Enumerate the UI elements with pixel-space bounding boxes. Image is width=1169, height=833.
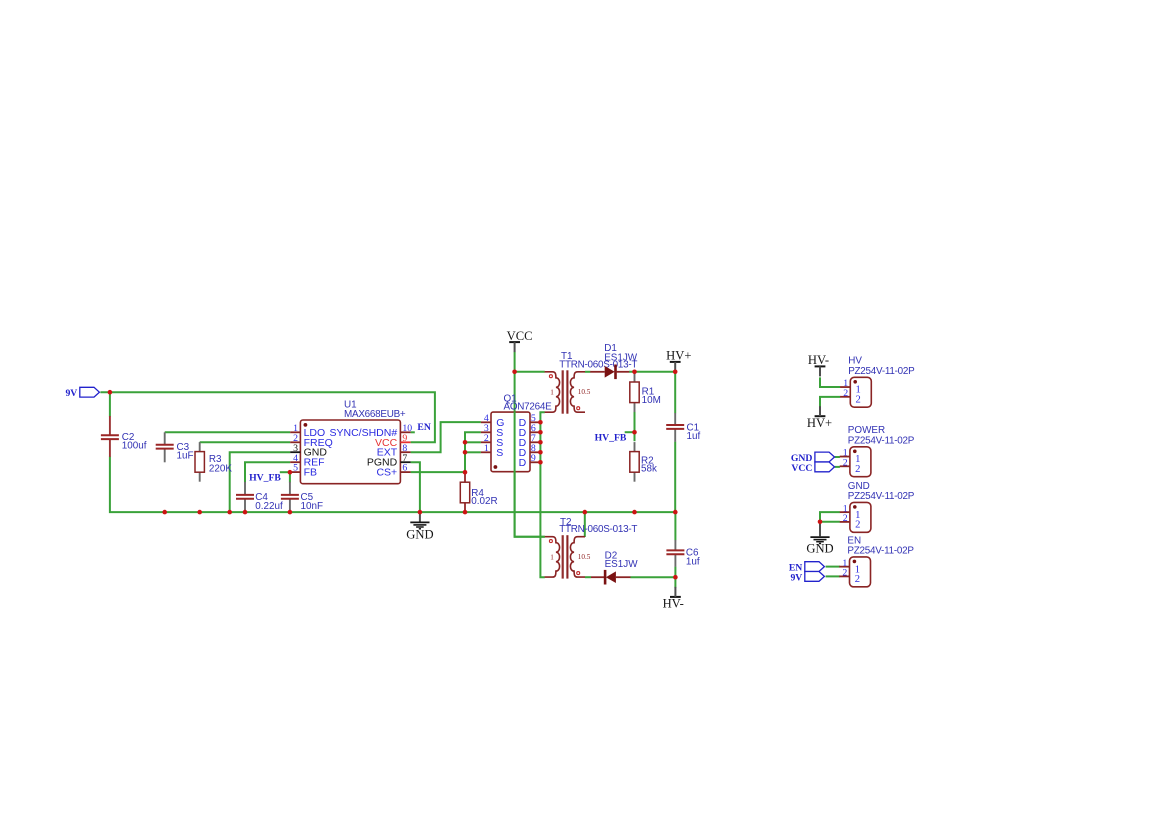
- U1 pin 3 GND: [290, 443, 327, 459]
- junction: [227, 510, 232, 515]
- wire HV_FB stub at FB: [280, 471, 290, 473]
- resistor R1 10M: [630, 373, 661, 413]
- svg-text:AON7264E: AON7264E: [504, 402, 553, 413]
- wire HV+ node to C1: [674, 372, 676, 413]
- svg-text:HV_FB: HV_FB: [595, 432, 627, 443]
- svg-text:S: S: [496, 447, 503, 459]
- junction: [538, 460, 543, 465]
- svg-text:VCC: VCC: [791, 463, 812, 474]
- svg-text:HV-: HV-: [808, 353, 829, 367]
- connector EN PZ254V-11-02P: [839, 535, 914, 587]
- junction: [463, 450, 468, 455]
- junction: [632, 370, 637, 375]
- wire U1 GND to rail: [230, 452, 291, 512]
- wire VCC down to T2 primary top: [515, 352, 545, 537]
- svg-text:TTRN-060S-013-T: TTRN-060S-013-T: [559, 524, 637, 535]
- Q1 pin 5 D: [519, 413, 541, 429]
- wire source bus to Q1 pin1: [465, 451, 481, 453]
- svg-text:1: 1: [550, 388, 554, 396]
- Q1 pin 4 G: [481, 413, 505, 429]
- capacitor C5 10nF: [281, 482, 323, 512]
- net flag 9V: [790, 572, 824, 584]
- junction: [673, 510, 678, 515]
- power flag HV- at HV connector: [808, 353, 829, 376]
- U1 pin 10 SYNC/SHDN#: [330, 423, 413, 439]
- capacitor C4 0.22uf: [236, 482, 283, 512]
- wire FB to C5: [289, 472, 291, 482]
- svg-text:ES1JW: ES1JW: [605, 559, 639, 570]
- svg-text:10M: 10M: [642, 395, 661, 406]
- svg-text:1uf: 1uf: [687, 431, 701, 442]
- svg-text:D: D: [519, 457, 527, 469]
- junction: [538, 430, 543, 435]
- svg-text:1uf: 1uf: [686, 556, 700, 567]
- wire U1 EXT to Q1 gate: [411, 422, 481, 452]
- svg-text:2: 2: [842, 568, 847, 579]
- wire GND conn pin1: [820, 512, 840, 522]
- svg-text:1: 1: [550, 553, 554, 561]
- svg-text:1: 1: [484, 443, 489, 454]
- wire GND flag to POWER pin1: [835, 456, 840, 458]
- junction: [632, 510, 637, 515]
- connector POWER PZ254V-11-02P: [840, 425, 915, 476]
- svg-text:EN: EN: [417, 422, 430, 433]
- svg-text:2: 2: [855, 574, 860, 585]
- net flag VCC: [791, 462, 834, 474]
- Q1 pin 8 D: [519, 443, 541, 459]
- wire T2 secondary to D2: [585, 576, 591, 578]
- U1 pin 2 FREQ: [290, 433, 333, 449]
- wire R1 to R2 divider: [634, 412, 636, 442]
- power flag HV-: [663, 587, 684, 611]
- resistor R3 220K: [195, 442, 232, 482]
- wire D2 to HV- node: [630, 576, 675, 578]
- U1 pin 9 VCC: [375, 433, 411, 449]
- junction: [463, 440, 468, 445]
- junction: [818, 520, 823, 525]
- junction: [512, 370, 517, 375]
- svg-text:HV: HV: [848, 356, 862, 367]
- wire VCC through Q1 to T2 primary top (overlay): [515, 412, 545, 537]
- junction: [538, 440, 543, 445]
- U1 pin 4 REF: [290, 453, 324, 469]
- power flag VCC: [507, 329, 533, 352]
- svg-text:9V: 9V: [790, 572, 802, 583]
- svg-text:220K: 220K: [209, 463, 232, 474]
- svg-text:HV+: HV+: [666, 349, 691, 363]
- wire HV conn pin2 to HV+: [820, 397, 840, 407]
- junction: [673, 370, 678, 375]
- wire 9V flag to EN conn pin2: [826, 575, 840, 577]
- junction: [463, 470, 468, 475]
- svg-text:10.5: 10.5: [578, 388, 591, 396]
- svg-text:2: 2: [856, 395, 861, 406]
- svg-text:58k: 58k: [641, 464, 657, 475]
- svg-text:GND: GND: [848, 481, 870, 492]
- net flag EN: [789, 562, 825, 574]
- svg-text:GND: GND: [406, 527, 433, 541]
- svg-text:FB: FB: [304, 467, 317, 479]
- svg-text:2: 2: [855, 464, 860, 475]
- junction: [418, 510, 423, 515]
- net flag 9V: [65, 387, 99, 399]
- resistor R4 0.02R: [460, 473, 497, 513]
- svg-text:2: 2: [843, 457, 848, 468]
- wire HV conn pin1 to HV-: [820, 377, 840, 387]
- U1 pin 1 LDO: [290, 423, 325, 439]
- wire 9V to C2: [109, 392, 111, 416]
- svg-text:2: 2: [843, 388, 848, 399]
- svg-text:HV_FB: HV_FB: [249, 473, 281, 484]
- svg-text:MAX668EUB+: MAX668EUB+: [344, 409, 406, 420]
- junction: [288, 470, 293, 475]
- capacitor C2 100uf: [101, 416, 147, 457]
- Q1 pin 3 S: [481, 423, 503, 439]
- svg-text:0.02R: 0.02R: [471, 496, 497, 507]
- svg-text:9V: 9V: [65, 388, 77, 399]
- wire C6 to HV-: [674, 567, 676, 588]
- junction: [162, 510, 167, 515]
- wire source bus to Q1 pin3: [465, 432, 481, 472]
- net flag GND: [791, 452, 835, 464]
- svg-text:ES1JW: ES1JW: [604, 353, 638, 364]
- svg-text:HV-: HV-: [663, 597, 684, 611]
- wire U1 CS+ to R4 node: [411, 471, 465, 473]
- svg-text:2: 2: [843, 513, 848, 524]
- svg-text:10nF: 10nF: [301, 501, 324, 512]
- svg-text:PZ254V-11-02P: PZ254V-11-02P: [848, 366, 915, 377]
- svg-text:9: 9: [531, 453, 536, 464]
- wire VCC to T1 primary top: [515, 371, 545, 373]
- svg-text:PZ254V-11-02P: PZ254V-11-02P: [848, 491, 915, 502]
- svg-text:VCC: VCC: [507, 329, 533, 343]
- svg-text:5: 5: [293, 463, 298, 474]
- svg-text:POWER: POWER: [848, 425, 885, 436]
- wire VCC flag to POWER pin2: [835, 466, 840, 468]
- Q1 pin 7 D: [519, 433, 541, 449]
- wire GND conn pin2: [820, 521, 840, 523]
- op-amp U1 MAX668EUB+ (boost controller IC): [300, 400, 406, 484]
- wire D1 to HV+ node: [629, 371, 675, 373]
- wire EN flag to EN conn pin1: [826, 566, 840, 568]
- transistor Q1 AON7264E (MOSFET): [491, 393, 552, 471]
- wire U1 PGND to rail: [411, 462, 420, 512]
- wire HV_FB stub at divider: [625, 431, 635, 433]
- Q1 pin 6 D: [519, 423, 541, 439]
- Q1 pin 1 S: [481, 443, 503, 459]
- wire GND rail: [110, 457, 675, 513]
- junction: [197, 510, 202, 515]
- svg-text:6: 6: [402, 463, 407, 474]
- wire U1 REF to C4: [245, 462, 290, 482]
- svg-text:EN: EN: [847, 535, 861, 546]
- svg-text:1uF: 1uF: [177, 451, 194, 462]
- junction: [538, 420, 543, 425]
- svg-text:2: 2: [855, 520, 860, 531]
- junction: [108, 390, 113, 395]
- junction: [632, 430, 637, 435]
- connector GND PZ254V-11-02P: [840, 481, 915, 533]
- wire rail to C6: [674, 512, 676, 540]
- diode D2 ES1JW: [591, 551, 638, 585]
- capacitor C1 1uf: [666, 413, 700, 442]
- svg-text:100uf: 100uf: [122, 441, 147, 452]
- svg-text:HV+: HV+: [807, 416, 832, 430]
- junction: [463, 510, 468, 515]
- wire rail to T2 secondary top: [584, 512, 586, 537]
- Q1 pin 9 D: [519, 453, 541, 469]
- wire C1 to rail: [674, 442, 676, 512]
- svg-text:PZ254V-11-02P: PZ254V-11-02P: [847, 546, 914, 557]
- wire 9V to U1 VCC pin9: [100, 392, 435, 442]
- junction: [673, 575, 678, 580]
- U1 pin 5 FB: [290, 463, 317, 479]
- capacitor C6 1uf: [666, 540, 699, 567]
- power flag HV+: [666, 349, 691, 372]
- wire source bus to Q1 pin2: [465, 441, 481, 443]
- wire U1 LDO to C3: [165, 431, 291, 433]
- capacitor C3 1uF: [156, 432, 194, 462]
- svg-text:PZ254V-11-02P: PZ254V-11-02P: [848, 436, 915, 447]
- U1 pin 7 PGND: [367, 453, 411, 469]
- wire T1 secondary to D1: [585, 371, 591, 373]
- svg-text:0.22uf: 0.22uf: [255, 501, 283, 512]
- ground GND at GND connector: [806, 522, 833, 556]
- connector HV PZ254V-11-02P: [840, 356, 915, 407]
- junction: [583, 510, 588, 515]
- resistor R2 58k: [630, 442, 657, 482]
- transformer T1 TTRN-060S-013-T: [545, 370, 591, 413]
- transformer T2 TTRN-060S-013-T: [545, 535, 591, 578]
- svg-text:GND: GND: [806, 542, 833, 556]
- Q1 pin 2 S: [481, 433, 503, 449]
- wire U1 FREQ to R3: [200, 441, 291, 443]
- junction: [288, 510, 293, 515]
- wire T1 primary bottom / Q1 drains / T2 primary bottom: [540, 412, 544, 577]
- wire U1 pin10 to EN label: [411, 431, 415, 433]
- power flag HV+ at HV connector: [807, 406, 832, 430]
- ground GND (main rail): [406, 512, 433, 541]
- junction: [243, 510, 248, 515]
- U1 pin 8 EXT: [377, 443, 411, 459]
- svg-text:CS+: CS+: [376, 467, 397, 479]
- diode D1 ES1JW: [590, 343, 638, 379]
- U1 pin 6 CS+: [376, 463, 410, 479]
- junction: [538, 450, 543, 455]
- svg-text:10.5: 10.5: [578, 553, 591, 561]
